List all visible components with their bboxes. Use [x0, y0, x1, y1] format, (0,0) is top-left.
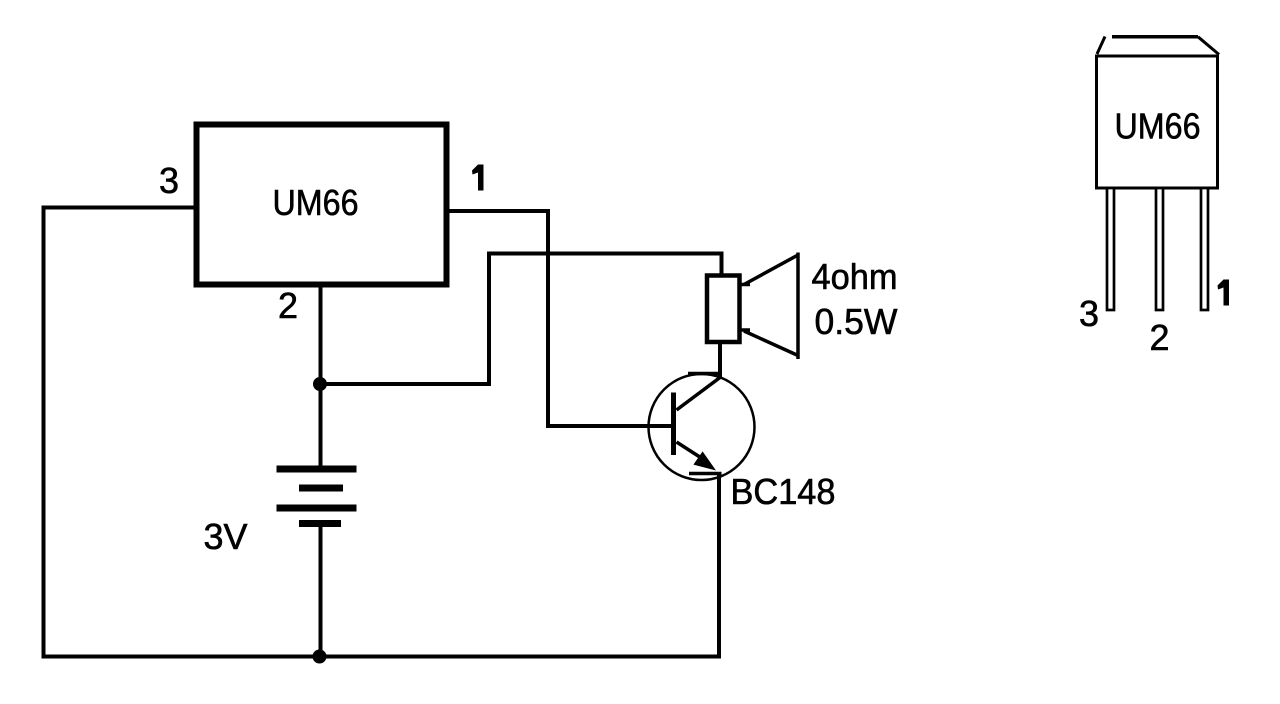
transistor Q1 collector tick [688, 372, 722, 376]
wire pin3 to left rail [44, 208, 198, 657]
speaker horn cone [744, 253, 798, 360]
speaker horn stub bottom [741, 328, 750, 332]
battery B1 plate short bottom [299, 520, 341, 527]
wire battery to ground rail [319, 527, 323, 658]
transistor Q1 circle [649, 374, 755, 480]
package lead 2 [1156, 188, 1163, 310]
svg-text:UM66: UM66 [1115, 106, 1201, 147]
svg-text:BC148: BC148 [731, 471, 836, 512]
node junction dot ground [313, 650, 327, 664]
package top chamfer right [1198, 37, 1219, 55]
wire bottom ground rail [42, 655, 722, 659]
svg-text:3: 3 [159, 160, 179, 201]
IC U1 UM66 box [197, 125, 447, 285]
package U1 body [1097, 56, 1218, 188]
wire pin2 down to battery [319, 284, 323, 466]
transistor Q1 emitter diagonal [677, 442, 707, 461]
package lead 3 [1107, 188, 1114, 310]
wire junction to speaker top [319, 254, 722, 385]
package lead 1 [1201, 188, 1208, 310]
transistor Q1 collector diagonal [677, 378, 721, 411]
svg-text:4ohm: 4ohm [812, 256, 898, 297]
battery B1 plate long top [277, 466, 357, 473]
wire emitter to ground rail [717, 472, 721, 658]
wire speaker to collector [718, 342, 722, 377]
pin 1 label [472, 165, 484, 191]
package top edge [1112, 35, 1198, 39]
svg-text:2: 2 [278, 285, 298, 326]
svg-text:3V: 3V [204, 516, 248, 557]
svg-text:UM66: UM66 [273, 182, 359, 223]
svg-text:2: 2 [1150, 317, 1170, 358]
node junction dot upper [313, 377, 327, 391]
package pin label 1 [1218, 280, 1230, 306]
svg-text:3: 3 [1079, 293, 1099, 334]
transistor Q1 emitter tick [689, 472, 722, 476]
transistor Q1 emitter arrowhead [693, 451, 716, 470]
svg-text:0.5W: 0.5W [815, 301, 898, 342]
package top chamfer left [1097, 37, 1105, 55]
battery B1 plate long lower [277, 505, 357, 512]
battery B1 plate short [299, 485, 343, 492]
speaker LS1 driver box [707, 276, 740, 343]
wire pin1 to base [447, 211, 672, 426]
speaker horn stub top [741, 283, 750, 287]
transistor Q1 base bar [671, 393, 676, 456]
